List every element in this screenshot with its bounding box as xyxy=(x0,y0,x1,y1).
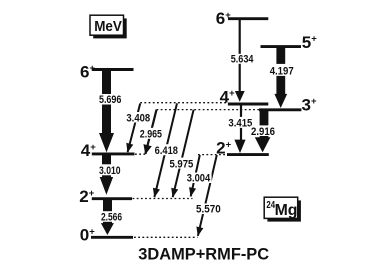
level 6+ ground band xyxy=(92,68,134,71)
level 0+ ground band xyxy=(91,236,133,239)
dotted extension right of ground-band 4+ level xyxy=(135,153,145,155)
value label 3.408 xyxy=(125,112,151,124)
interband diagonal arrow 6.418 xyxy=(154,103,177,197)
value label 4.197 xyxy=(269,64,295,78)
svg-text:3.004: 3.004 xyxy=(187,173,211,185)
svg-text:5.634: 5.634 xyxy=(231,54,255,66)
interband diagonal arrow 2.965 xyxy=(145,110,156,154)
level 5+ side band xyxy=(261,45,302,48)
transition arrow 4.197 shaft (5+ to 3+, side band) xyxy=(276,48,285,96)
transition arrow 2.566 shaft (2+ to 0+, ground band) xyxy=(103,200,112,224)
level 3+ side band xyxy=(259,108,301,111)
transition arrow 3.010 shaft (4+ to 2+, ground band) xyxy=(102,155,111,179)
svg-text:Mg: Mg xyxy=(275,202,298,219)
transition arrow 5.696 head xyxy=(99,133,114,152)
transition arrow 5.634 shaft (middle 6+ to 4+) xyxy=(239,20,241,93)
dotted connector from middle-band 4+ level xyxy=(140,102,228,104)
nucleus label box 24Mg xyxy=(264,197,301,221)
svg-text:5.975: 5.975 xyxy=(170,158,194,170)
transition arrow 3.415 head xyxy=(234,140,245,154)
MeV unit box xyxy=(90,15,127,38)
dotted extension right of ground-band 2+ level xyxy=(133,198,193,200)
value label 3.415 xyxy=(227,117,254,130)
transition arrow 3.010 head xyxy=(100,177,113,195)
value label 5.634 xyxy=(229,54,255,66)
svg-text:4.197: 4.197 xyxy=(270,66,294,78)
dotted connector left of middle-band 2+ level xyxy=(198,154,227,156)
level 6+ middle band xyxy=(228,17,268,20)
level 4+ ground band xyxy=(92,152,135,155)
transition arrow 5.696 shaft (6+ to 4+, ground band) xyxy=(102,71,111,135)
svg-text:6.418: 6.418 xyxy=(155,145,178,157)
svg-text:3.408: 3.408 xyxy=(126,112,150,124)
value label 5.570 xyxy=(195,204,222,216)
dotted extension right of ground-band 0+ level xyxy=(134,236,198,238)
svg-text:3DAMP+RMF-PC: 3DAMP+RMF-PC xyxy=(138,245,269,263)
interband diagonal arrow 5.570 xyxy=(198,155,217,236)
interband diagonal arrow 3.004 xyxy=(191,155,200,196)
transition arrow 3.415 shaft (middle 4+ to 2+) xyxy=(240,105,242,142)
svg-text:3.415: 3.415 xyxy=(228,118,252,130)
transition arrow 2.916 head xyxy=(255,137,271,152)
svg-text:MeV: MeV xyxy=(94,18,122,35)
transition arrow 2.916 shaft (3+ to middle 2+) xyxy=(260,111,269,139)
level 2+ middle band xyxy=(227,153,269,156)
value label 6.418 xyxy=(153,144,179,157)
svg-text:5.570: 5.570 xyxy=(196,204,221,216)
value label 5.975 xyxy=(168,158,194,171)
value label 2.916 xyxy=(250,125,276,137)
interband diagonal arrow 5.975 xyxy=(173,110,194,197)
transition arrow 2.566 head xyxy=(101,223,114,235)
svg-text:2.965: 2.965 xyxy=(140,129,162,141)
level 2+ ground band xyxy=(92,197,132,200)
interband diagonal arrow 3.408 xyxy=(128,104,141,153)
value label 2.566 xyxy=(99,211,124,223)
value label 5.696 xyxy=(97,94,123,106)
value label 2.965 xyxy=(139,128,164,141)
transition arrow 5.634 head xyxy=(235,91,245,102)
svg-text:2.566: 2.566 xyxy=(101,212,122,224)
level 4+ middle band xyxy=(228,103,268,106)
svg-text:3.010: 3.010 xyxy=(99,165,121,177)
transition arrow 4.197 head xyxy=(274,94,287,108)
value label 3.010 xyxy=(97,164,123,177)
svg-text:2.916: 2.916 xyxy=(251,126,275,138)
value label 3.004 xyxy=(185,173,211,185)
svg-text:5.696: 5.696 xyxy=(99,94,122,106)
dotted connector from 3+ level xyxy=(157,109,260,111)
